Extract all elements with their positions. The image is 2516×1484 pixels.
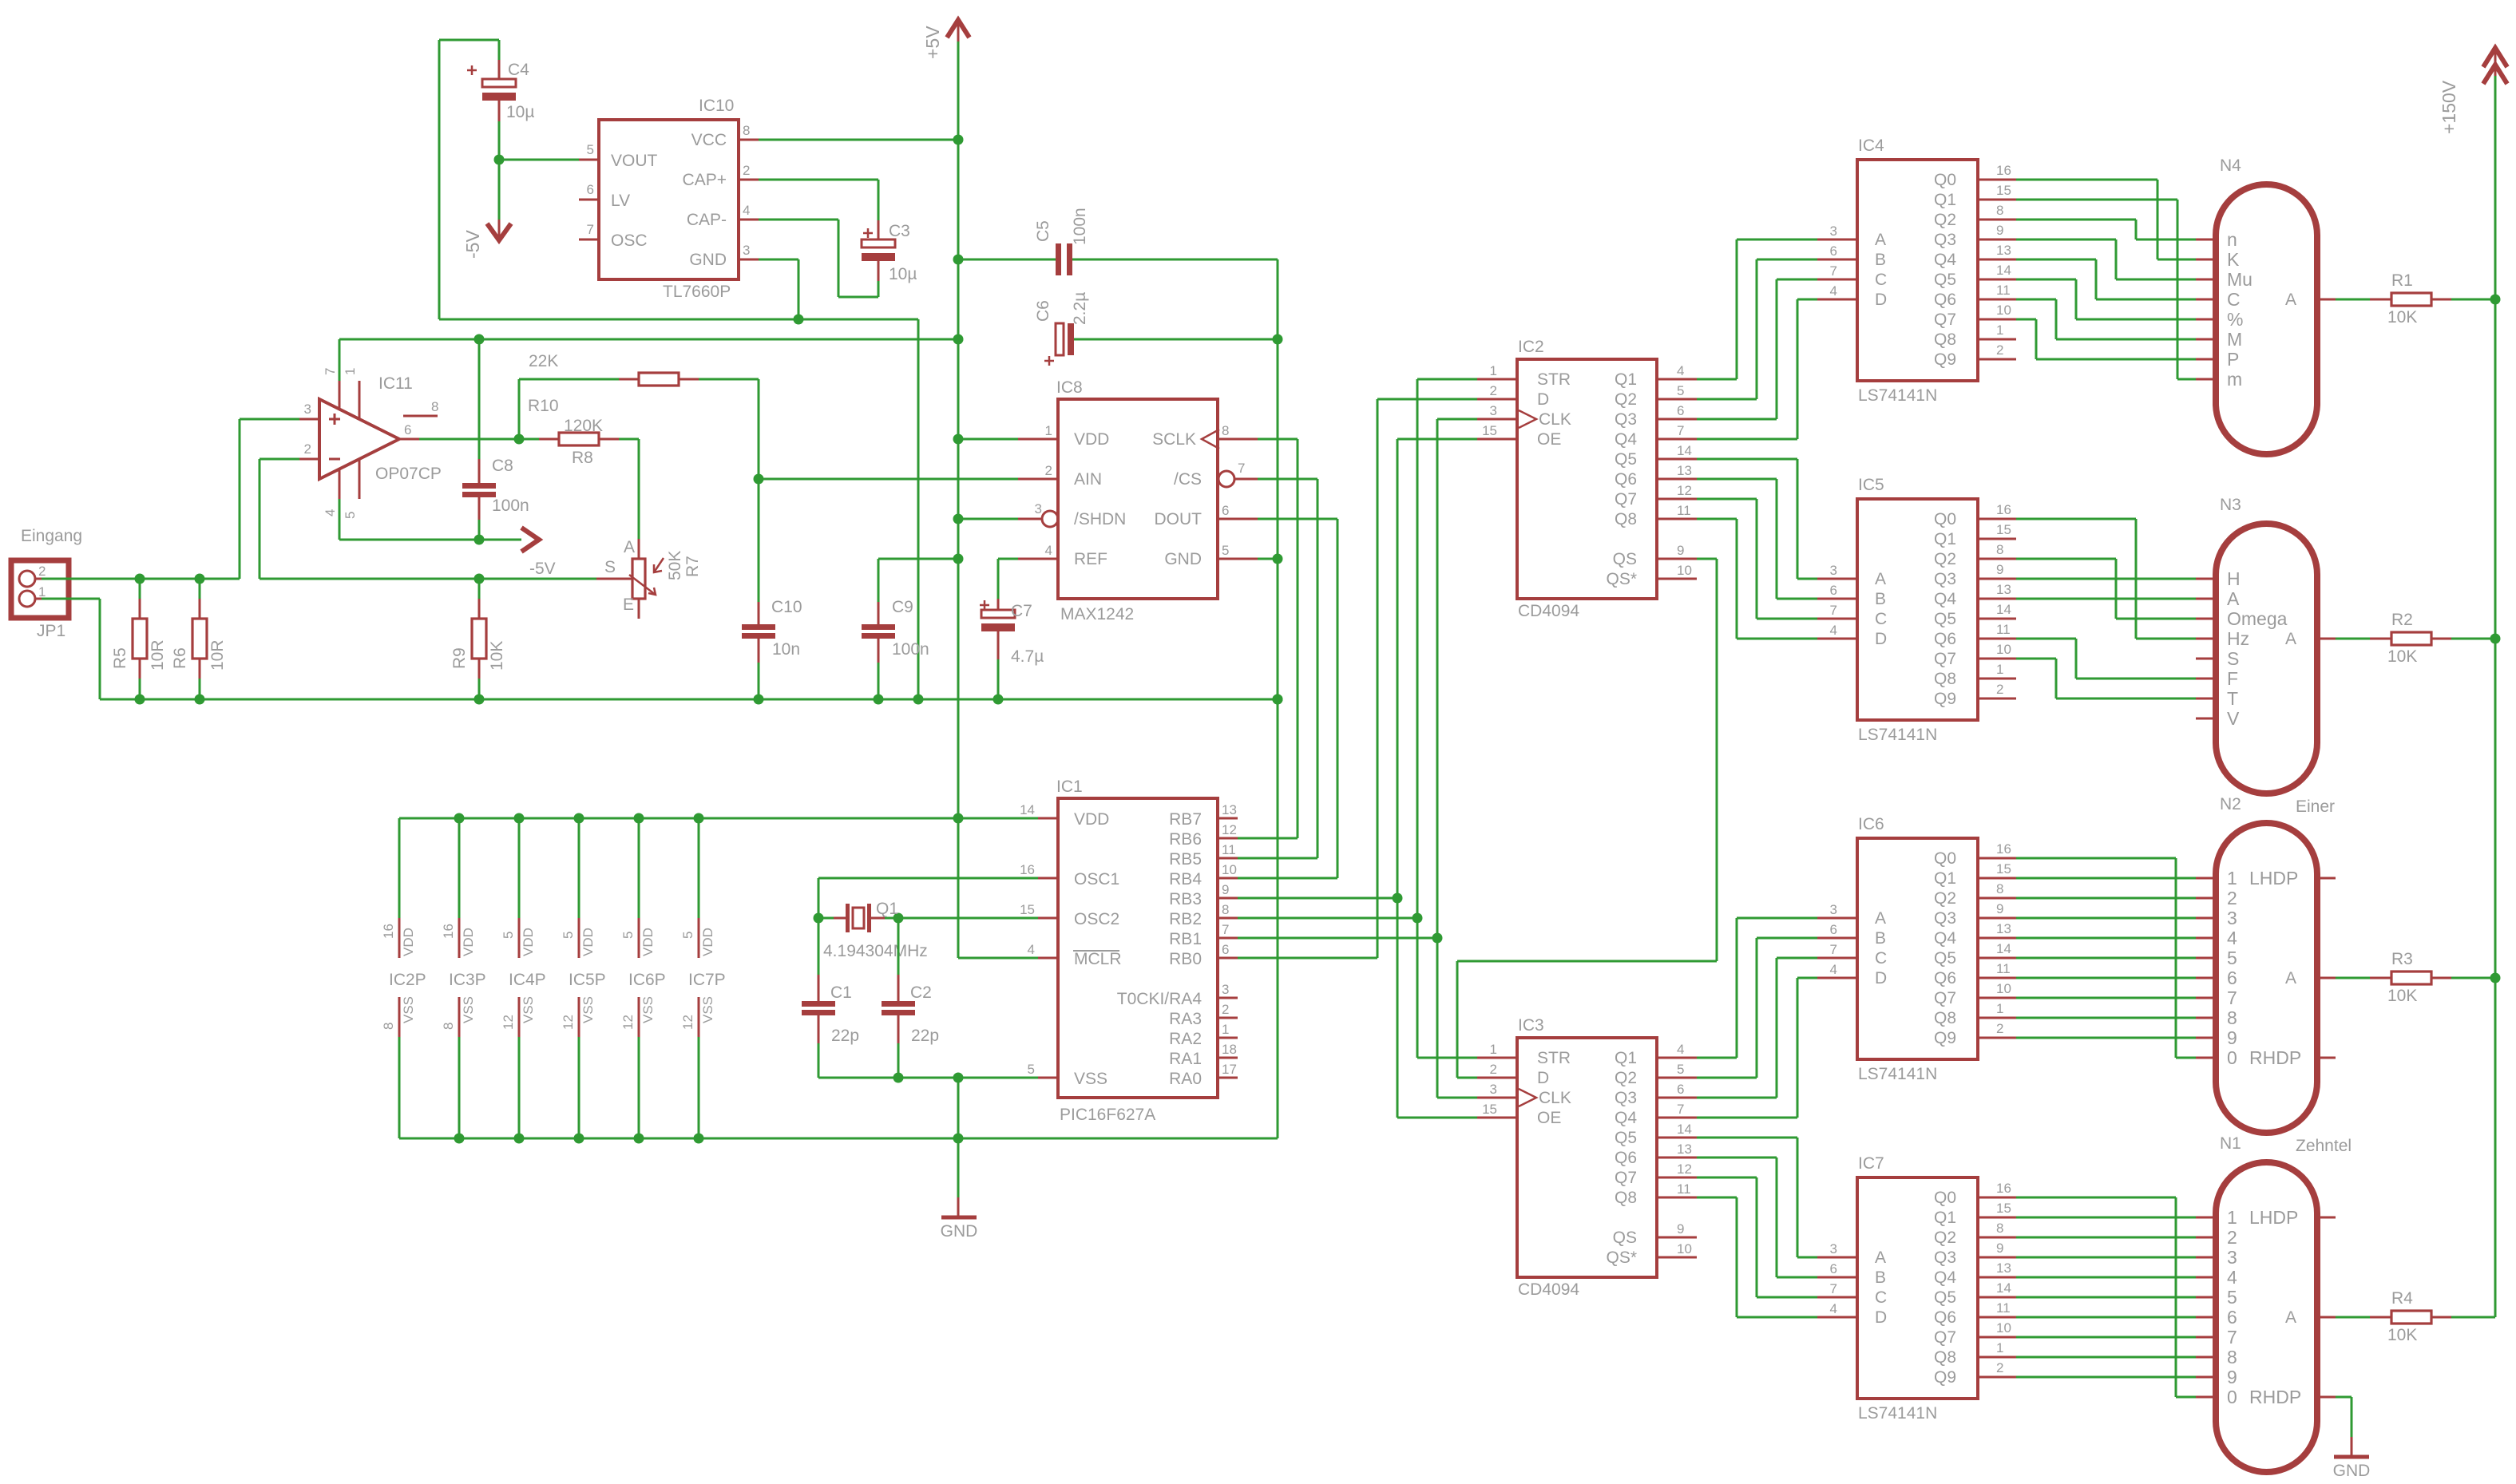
wire IC10 VCC to +5V rail bbox=[759, 139, 958, 141]
svg-text:7: 7 bbox=[2227, 1327, 2237, 1347]
node +5V VCC bbox=[953, 135, 964, 145]
node R9/wiper bbox=[474, 574, 485, 584]
power symbol IC4P bbox=[518, 918, 521, 958]
wire bus CLK vertical x=1800 bbox=[1436, 419, 1439, 1098]
svg-text:IC2: IC2 bbox=[1518, 338, 1544, 356]
svg-text:4: 4 bbox=[2227, 928, 2237, 948]
svg-text:11: 11 bbox=[1677, 503, 1691, 518]
svg-text:H: H bbox=[2227, 568, 2241, 589]
IC U IC4 LS74141N bbox=[1857, 160, 1978, 381]
svg-text:12: 12 bbox=[1677, 483, 1692, 498]
wire JP1 pin1 to GND rail bbox=[42, 598, 100, 600]
connector JP1 Eingang bbox=[11, 560, 69, 618]
wire IC4 Q4 to N4 C bbox=[2016, 259, 2096, 261]
svg-text:Q1: Q1 bbox=[1934, 530, 1956, 548]
wire IC7 Q9 to N1 9 bbox=[2016, 1376, 2196, 1379]
IC U IC1 PIC16F627A bbox=[1058, 798, 1218, 1098]
svg-text:C: C bbox=[1875, 610, 1887, 628]
svg-text:Q8: Q8 bbox=[1615, 510, 1637, 528]
svg-text:1: 1 bbox=[1222, 1022, 1229, 1037]
svg-text:3: 3 bbox=[1830, 224, 1837, 239]
svg-text:6: 6 bbox=[587, 182, 594, 197]
svg-text:5: 5 bbox=[1222, 543, 1229, 558]
resistor R3 10K bbox=[2336, 977, 2370, 979]
svg-text:Q3: Q3 bbox=[1934, 570, 1956, 588]
wire GND loop from C4+ to line A bbox=[439, 39, 499, 42]
svg-text:B: B bbox=[1875, 929, 1886, 948]
wire IC6 Q0 to N2 0 bbox=[2016, 857, 2176, 860]
svg-text:-5V: -5V bbox=[462, 230, 483, 259]
node RB1/CLK bbox=[1432, 933, 1443, 944]
svg-text:A: A bbox=[624, 538, 635, 556]
node gnd drop bbox=[953, 1073, 964, 1083]
svg-text:7: 7 bbox=[1830, 263, 1837, 279]
wire +5V line B to op-amp V+ pin7 bbox=[339, 339, 341, 381]
wire N1 RHDP to GND bbox=[2336, 1396, 2352, 1399]
supply +5V symbol bbox=[947, 20, 969, 38]
power symbol IC6P bbox=[638, 918, 640, 958]
capacitor C4 bbox=[498, 60, 501, 79]
svg-text:Q8: Q8 bbox=[1934, 330, 1956, 349]
node C2 gnd bbox=[893, 1073, 904, 1083]
svg-text:C: C bbox=[1875, 949, 1887, 968]
svg-text:14: 14 bbox=[1996, 602, 2011, 617]
svg-text:VDD: VDD bbox=[1074, 810, 1109, 829]
svg-text:4: 4 bbox=[743, 203, 750, 218]
node GND rail at C10 bbox=[754, 695, 764, 705]
capacitor C7 4.7µ bbox=[997, 599, 1000, 610]
svg-text:D: D bbox=[1875, 291, 1887, 309]
svg-text:C8: C8 bbox=[492, 457, 513, 475]
svg-text:VDD: VDD bbox=[401, 928, 416, 956]
svg-text:10: 10 bbox=[1677, 563, 1692, 578]
svg-text:Q7: Q7 bbox=[1934, 311, 1956, 329]
svg-text:16: 16 bbox=[1996, 163, 2011, 178]
svg-text:4: 4 bbox=[1830, 283, 1837, 299]
node VDD rail bbox=[634, 813, 644, 824]
wire IC3 Q2 to IC6 B bbox=[1697, 1077, 1757, 1079]
svg-text:0: 0 bbox=[2227, 1047, 2237, 1068]
wire GND rail (bottom) bbox=[100, 698, 1278, 701]
svg-text:RB2: RB2 bbox=[1169, 910, 1202, 928]
svg-text:P: P bbox=[2227, 349, 2239, 370]
wire -input to wiper line bbox=[260, 458, 299, 461]
svg-text:R9: R9 bbox=[450, 647, 469, 669]
svg-text:LHDP: LHDP bbox=[2249, 1207, 2298, 1228]
ground symbol GND left bbox=[957, 1138, 960, 1197]
wire IC10 CAP+ to C3 bbox=[759, 179, 878, 181]
svg-text:OE: OE bbox=[1537, 1109, 1561, 1127]
svg-text:C3: C3 bbox=[889, 222, 910, 240]
wire bus OE vertical x=1750 bbox=[1397, 439, 1399, 1118]
svg-text:OSC1: OSC1 bbox=[1074, 870, 1119, 888]
svg-text:AIN: AIN bbox=[1074, 470, 1102, 489]
svg-text:3: 3 bbox=[1490, 403, 1497, 418]
svg-text:IC6: IC6 bbox=[1858, 815, 1884, 833]
wire IC2 Q7 to IC5 C bbox=[1697, 498, 1757, 501]
svg-text:Q1: Q1 bbox=[1934, 191, 1956, 209]
capacitor C2 22p bbox=[897, 918, 900, 975]
svg-text:2: 2 bbox=[2227, 888, 2237, 908]
svg-text:4: 4 bbox=[1677, 1042, 1684, 1057]
svg-text:10: 10 bbox=[1996, 303, 2011, 318]
wire SCLK to RB6 bbox=[1258, 438, 1298, 441]
svg-text:5: 5 bbox=[343, 512, 358, 519]
IC U IC2 CD4094 bbox=[1517, 359, 1657, 599]
node R3 rail bbox=[2490, 973, 2501, 983]
wire op-amp V- pin4 to -5V bbox=[339, 499, 341, 540]
svg-text:D: D bbox=[1875, 969, 1887, 987]
svg-text:IC10: IC10 bbox=[699, 97, 734, 115]
svg-text:Zehntel: Zehntel bbox=[2296, 1137, 2352, 1155]
svg-text:IC5P: IC5P bbox=[569, 971, 606, 989]
node VDD rail bbox=[694, 813, 704, 824]
svg-text:B: B bbox=[1875, 590, 1886, 608]
wire IC5 Q6 to N3 T bbox=[2016, 638, 2076, 640]
wire JP1 pin2 signal to +input bbox=[42, 578, 240, 580]
svg-text:Q4: Q4 bbox=[1615, 430, 1637, 449]
svg-text:IC6P: IC6P bbox=[628, 971, 666, 989]
svg-text:8: 8 bbox=[381, 1023, 396, 1030]
svg-text:3: 3 bbox=[1035, 501, 1042, 516]
wire IC4 Q3 to N4 Mu bbox=[2016, 239, 2116, 241]
wire REF to C7 bbox=[998, 558, 1018, 560]
svg-text:Q5: Q5 bbox=[1934, 949, 1956, 968]
svg-text:A: A bbox=[1875, 909, 1886, 928]
resistor R4 10K bbox=[2336, 1316, 2370, 1319]
svg-text:Q0: Q0 bbox=[1934, 510, 1956, 528]
svg-text:n: n bbox=[2227, 229, 2237, 250]
wire AIN line bbox=[759, 478, 1018, 481]
wire RB2 to STR bus bbox=[1238, 917, 1417, 920]
svg-text:100n: 100n bbox=[1071, 208, 1089, 245]
svg-text:GND: GND bbox=[689, 251, 727, 269]
svg-text:0: 0 bbox=[2227, 1387, 2237, 1407]
wire /CS to RB5 bbox=[1258, 478, 1317, 481]
wire C4 top bbox=[498, 40, 501, 60]
svg-text:5: 5 bbox=[561, 932, 576, 939]
node GND rail at line A bbox=[913, 695, 924, 705]
svg-text:12: 12 bbox=[561, 1015, 576, 1030]
svg-text:C: C bbox=[1875, 1288, 1887, 1307]
svg-text:9: 9 bbox=[1677, 543, 1684, 558]
wire IC10 CAP- to C3 bottom bbox=[759, 219, 838, 221]
svg-text:RB4: RB4 bbox=[1169, 870, 1202, 888]
svg-text:1: 1 bbox=[2227, 868, 2237, 888]
wire IC6 Q4 to N2 4 bbox=[2016, 937, 2196, 940]
svg-text:/CS: /CS bbox=[1174, 470, 1202, 489]
svg-text:K: K bbox=[2227, 249, 2240, 270]
node GND rail at C9 bbox=[874, 695, 884, 705]
resistor R6 10R bbox=[199, 579, 201, 599]
svg-text:M: M bbox=[2227, 329, 2242, 350]
wire IC4 Q6 to N4 M bbox=[2016, 299, 2056, 301]
svg-text:B: B bbox=[1875, 1268, 1886, 1287]
svg-text:7: 7 bbox=[1830, 942, 1837, 957]
svg-text:10µ: 10µ bbox=[506, 103, 534, 121]
svg-text:SCLK: SCLK bbox=[1152, 430, 1196, 449]
wire OSC2 bbox=[898, 917, 1038, 920]
svg-text:1: 1 bbox=[1996, 1340, 2003, 1355]
svg-text:10: 10 bbox=[1996, 1320, 2011, 1336]
wire op-amp output node bbox=[419, 438, 539, 441]
svg-text:Q4: Q4 bbox=[1934, 929, 1956, 948]
svg-text:IC5: IC5 bbox=[1858, 476, 1884, 494]
svg-text:13: 13 bbox=[1677, 1142, 1692, 1157]
svg-text:10n: 10n bbox=[772, 640, 800, 659]
svg-text:5: 5 bbox=[1028, 1062, 1035, 1077]
svg-text:2: 2 bbox=[743, 163, 750, 178]
svg-text:CD4094: CD4094 bbox=[1518, 1280, 1579, 1299]
svg-text:IC7P: IC7P bbox=[688, 971, 726, 989]
svg-text:16: 16 bbox=[381, 924, 396, 939]
capacitor C1 22p bbox=[818, 918, 820, 975]
svg-text:6: 6 bbox=[1677, 1082, 1684, 1097]
wire IC5 Q7 to N3 V bbox=[2016, 658, 2056, 660]
svg-text:8: 8 bbox=[743, 123, 750, 138]
svg-text:RB7: RB7 bbox=[1169, 810, 1202, 829]
wire IC7 Q7 to N1 7 bbox=[2016, 1336, 2196, 1339]
svg-text:QS: QS bbox=[1613, 1229, 1637, 1247]
wire IC6 Q9 to N2 9 bbox=[2016, 1037, 2196, 1039]
svg-text:11: 11 bbox=[1996, 622, 2011, 637]
svg-text:REF: REF bbox=[1074, 550, 1107, 568]
node +5V C9 bbox=[953, 554, 964, 564]
svg-text:50K: 50K bbox=[666, 551, 684, 580]
node GND on line A bbox=[794, 315, 804, 325]
svg-text:VSS: VSS bbox=[401, 996, 416, 1023]
svg-text:CAP-: CAP- bbox=[687, 211, 727, 229]
svg-text:Q2: Q2 bbox=[1934, 889, 1956, 908]
svg-text:OSC: OSC bbox=[611, 232, 648, 250]
wire line A down to GND rail bbox=[917, 319, 920, 699]
svg-text:15: 15 bbox=[1482, 1102, 1497, 1117]
svg-text:2: 2 bbox=[304, 441, 311, 457]
svg-text:LS74141N: LS74141N bbox=[1858, 1065, 1937, 1083]
svg-text:V: V bbox=[2227, 708, 2240, 729]
IC10 TL7660P bbox=[599, 120, 739, 279]
svg-text:IC2P: IC2P bbox=[389, 971, 426, 989]
svg-text:15: 15 bbox=[1482, 423, 1497, 438]
svg-text:Q9: Q9 bbox=[1934, 1029, 1956, 1047]
svg-text:7: 7 bbox=[1677, 423, 1684, 438]
svg-text:10K: 10K bbox=[2387, 987, 2417, 1005]
ground symbol GND right bbox=[2351, 1437, 2353, 1456]
svg-text:Q6: Q6 bbox=[1615, 1149, 1637, 1167]
svg-text:R1: R1 bbox=[2391, 271, 2413, 290]
svg-text:12: 12 bbox=[620, 1015, 636, 1030]
svg-text:Q7: Q7 bbox=[1934, 1328, 1956, 1347]
svg-text:2: 2 bbox=[1045, 463, 1052, 478]
svg-text:Q5: Q5 bbox=[1934, 610, 1956, 628]
svg-text:7: 7 bbox=[1830, 603, 1837, 618]
svg-text:CLK: CLK bbox=[1539, 1089, 1571, 1107]
svg-text:6: 6 bbox=[1830, 583, 1837, 598]
node RB2/STR bbox=[1413, 913, 1423, 924]
svg-text:10K: 10K bbox=[2387, 308, 2417, 326]
wire IC7 Q2 to N1 2 bbox=[2016, 1237, 2196, 1239]
wire IC3 Q3 to IC6 C bbox=[1697, 1097, 1777, 1099]
svg-text:11: 11 bbox=[1677, 1181, 1691, 1197]
svg-text:R7: R7 bbox=[683, 556, 702, 577]
svg-text:CLK: CLK bbox=[1539, 410, 1571, 429]
svg-text:R4: R4 bbox=[2391, 1289, 2413, 1308]
wire IC2 Q5 to IC5 A bbox=[1697, 458, 1797, 461]
svg-text:Q2: Q2 bbox=[1615, 390, 1637, 409]
wire R8 to pot A bbox=[638, 439, 640, 539]
svg-text:14: 14 bbox=[1677, 1122, 1692, 1137]
wire IC3 Q1 to IC6 A bbox=[1697, 1057, 1737, 1059]
wire IC7 Q1 to N1 1 bbox=[2016, 1217, 2196, 1219]
svg-text:C6: C6 bbox=[1034, 300, 1052, 322]
svg-text:6: 6 bbox=[404, 422, 411, 437]
wire IC6 Q1 to N2 1 bbox=[2016, 877, 2196, 880]
node R2 rail bbox=[2490, 634, 2501, 644]
wire IC3 Q8 to IC7 D bbox=[1697, 1197, 1737, 1199]
svg-text:18: 18 bbox=[1222, 1042, 1237, 1057]
wire IC2 Q6 to IC5 B bbox=[1697, 478, 1777, 481]
node VOUT/-5V junction bbox=[494, 155, 505, 165]
svg-text:RB6: RB6 bbox=[1169, 830, 1202, 849]
wire bus D vertical x=1725 bbox=[1377, 399, 1379, 958]
svg-text:14: 14 bbox=[1020, 802, 1035, 817]
svg-text:Q1: Q1 bbox=[876, 900, 898, 918]
svg-text:LHDP: LHDP bbox=[2249, 868, 2298, 888]
svg-text:12: 12 bbox=[1222, 822, 1237, 837]
svg-text:N2: N2 bbox=[2220, 795, 2241, 813]
wire C9 top to +5V bbox=[878, 558, 958, 560]
svg-text:9: 9 bbox=[1996, 223, 2003, 238]
svg-text:RB3: RB3 bbox=[1169, 890, 1202, 908]
wire RB3 to OE bus bbox=[1238, 897, 1397, 900]
svg-text:16: 16 bbox=[1020, 862, 1035, 877]
svg-text:VDD: VDD bbox=[521, 928, 536, 956]
svg-text:m: m bbox=[2227, 369, 2242, 390]
svg-text:Q8: Q8 bbox=[1934, 1348, 1956, 1367]
svg-text:12: 12 bbox=[680, 1015, 695, 1030]
svg-text:RA2: RA2 bbox=[1169, 1030, 1202, 1048]
svg-text:IC11: IC11 bbox=[378, 374, 413, 393]
wire IC2 Q3 to IC4 C bbox=[1697, 418, 1777, 421]
wire RB0 to D bus bbox=[1238, 957, 1377, 960]
capacitor C8 bbox=[478, 339, 481, 459]
svg-text:10: 10 bbox=[1996, 642, 2011, 657]
svg-text:1: 1 bbox=[1490, 1042, 1497, 1057]
svg-text:GND: GND bbox=[2333, 1462, 2371, 1480]
svg-text:5: 5 bbox=[680, 932, 695, 939]
svg-text:Q3: Q3 bbox=[1615, 410, 1637, 429]
node +5V VDD rail bbox=[953, 813, 964, 824]
svg-text:MAX1242: MAX1242 bbox=[1060, 605, 1134, 623]
svg-text:T0CKI/RA4: T0CKI/RA4 bbox=[1117, 990, 1203, 1008]
svg-text:8: 8 bbox=[1222, 423, 1229, 438]
wire IC7 Q8 to N1 8 bbox=[2016, 1356, 2196, 1359]
svg-text:4.194304MHz: 4.194304MHz bbox=[823, 942, 928, 960]
svg-text:1: 1 bbox=[38, 584, 46, 600]
wire OSC1 bbox=[818, 877, 1038, 880]
wire IC7 Q4 to N1 4 bbox=[2016, 1276, 2196, 1279]
potentiometer R7 50K bbox=[596, 578, 632, 580]
svg-text:3: 3 bbox=[2227, 1247, 2237, 1268]
wire IC6 Q8 to N2 8 bbox=[2016, 1017, 2196, 1019]
svg-text:6: 6 bbox=[1830, 243, 1837, 259]
svg-text:10K: 10K bbox=[2387, 1326, 2417, 1344]
svg-text:QS*: QS* bbox=[1606, 1249, 1637, 1267]
svg-text:RHDP: RHDP bbox=[2249, 1387, 2301, 1407]
svg-text:VCC: VCC bbox=[691, 131, 727, 149]
svg-text:CAP+: CAP+ bbox=[683, 171, 727, 189]
wire DOUT to RB4 bbox=[1258, 518, 1337, 520]
svg-text:11: 11 bbox=[1222, 842, 1236, 857]
svg-text:5: 5 bbox=[2227, 948, 2237, 968]
svg-text:Q9: Q9 bbox=[1934, 690, 1956, 708]
wire IC3 Q7 to IC7 C bbox=[1697, 1177, 1757, 1179]
svg-text:5: 5 bbox=[620, 932, 636, 939]
svg-text:QS: QS bbox=[1613, 550, 1637, 568]
wire IC4 Q7 to N4 P bbox=[2016, 319, 2036, 321]
svg-text:JP1: JP1 bbox=[37, 622, 65, 640]
svg-text:IC3P: IC3P bbox=[449, 971, 486, 989]
node output/R8/R10 bbox=[514, 434, 525, 445]
svg-text:OSC2: OSC2 bbox=[1074, 910, 1119, 928]
svg-text:3: 3 bbox=[2227, 908, 2237, 928]
node XTAL right bbox=[893, 913, 904, 924]
svg-text:Q7: Q7 bbox=[1934, 650, 1956, 668]
wire IC5 Q3 to N3 A bbox=[2016, 578, 2196, 580]
svg-text:Q1: Q1 bbox=[1934, 1209, 1956, 1227]
svg-text:9: 9 bbox=[2227, 1367, 2237, 1387]
svg-text:17: 17 bbox=[1222, 1062, 1237, 1077]
svg-text:VDD: VDD bbox=[640, 928, 656, 956]
IC U IC6 LS74141N bbox=[1857, 838, 1978, 1059]
svg-text:100n: 100n bbox=[492, 497, 529, 515]
svg-text:Q2: Q2 bbox=[1615, 1069, 1637, 1087]
svg-text:Q1: Q1 bbox=[1934, 869, 1956, 888]
wire IC6 Q3 to N2 3 bbox=[2016, 917, 2196, 920]
nixie tube N2 bbox=[2216, 823, 2317, 1133]
svg-text:2: 2 bbox=[2227, 1227, 2237, 1248]
node GND rail at R9 bbox=[474, 695, 485, 705]
svg-text:13: 13 bbox=[1996, 243, 2011, 258]
svg-text:Q0: Q0 bbox=[1934, 171, 1956, 189]
svg-text:Omega: Omega bbox=[2227, 608, 2288, 629]
svg-text:13: 13 bbox=[1677, 463, 1692, 478]
svg-text:2: 2 bbox=[1490, 1062, 1497, 1077]
wire C4 bottom to VOUT node bbox=[498, 121, 501, 160]
svg-text:8: 8 bbox=[1222, 902, 1229, 917]
svg-text:10K: 10K bbox=[2387, 647, 2417, 666]
svg-text:R6: R6 bbox=[171, 647, 189, 669]
node +5V C5 bbox=[953, 255, 964, 265]
svg-text:2: 2 bbox=[1996, 342, 2003, 358]
svg-text:6: 6 bbox=[2227, 968, 2237, 988]
svg-text:1: 1 bbox=[2227, 1207, 2237, 1228]
svg-text:7: 7 bbox=[1677, 1102, 1684, 1117]
wire IC4 Q5 to N4 % bbox=[2016, 279, 2076, 281]
svg-text:A: A bbox=[1875, 570, 1886, 588]
svg-text:R2: R2 bbox=[2391, 611, 2413, 629]
svg-text:R10: R10 bbox=[528, 397, 559, 415]
wire IC2 Q1 to IC4 A bbox=[1697, 378, 1737, 381]
svg-text:2: 2 bbox=[1996, 1021, 2003, 1036]
svg-text:Q3: Q3 bbox=[1615, 1089, 1637, 1107]
svg-text:GND: GND bbox=[941, 1222, 978, 1241]
svg-text:10K: 10K bbox=[488, 641, 506, 671]
wire IC4 Q1 to N4 m bbox=[2016, 199, 2177, 201]
svg-text:STR: STR bbox=[1537, 370, 1571, 389]
svg-text:15: 15 bbox=[1020, 902, 1035, 917]
svg-text:D: D bbox=[1875, 1308, 1887, 1327]
